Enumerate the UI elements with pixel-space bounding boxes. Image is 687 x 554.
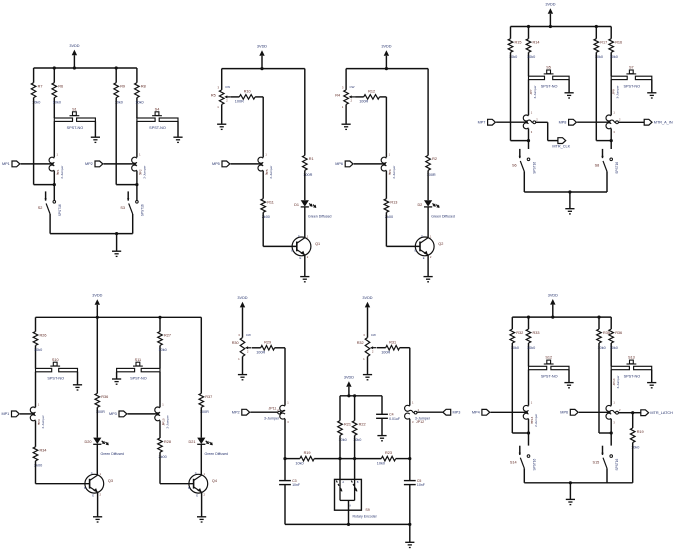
wire <box>528 419 530 446</box>
wire <box>136 121 138 157</box>
wire <box>275 347 285 349</box>
junction <box>115 66 118 69</box>
jumper JP10 <box>155 402 170 428</box>
svg-text:S2: S2 <box>38 206 43 210</box>
svg-text:R13: R13 <box>390 201 397 205</box>
svg-text:B: B <box>357 480 359 484</box>
junction <box>527 139 530 142</box>
junction <box>610 139 613 142</box>
resistor R19 <box>295 451 314 465</box>
wire <box>33 98 35 185</box>
ground <box>112 234 121 257</box>
svg-text:SPST-NO: SPST-NO <box>623 84 640 88</box>
wire <box>262 97 264 157</box>
wire <box>385 171 387 199</box>
svg-text:R27: R27 <box>164 333 171 337</box>
wire <box>409 419 411 481</box>
power 3VDD <box>545 3 555 27</box>
LED D21 <box>189 438 228 456</box>
svg-text:3VDD: 3VDD <box>344 376 354 380</box>
svg-text:E: E <box>92 493 94 497</box>
potentiometer R5 <box>211 85 231 109</box>
svg-text:S10: S10 <box>52 358 59 362</box>
resistor R36 <box>95 393 108 414</box>
node 3VDD rail E <box>36 316 202 318</box>
svg-text:R36: R36 <box>615 331 622 335</box>
svg-text:C4: C4 <box>389 413 394 417</box>
port MP3 <box>443 409 460 415</box>
switch S2 <box>38 191 62 233</box>
svg-text:S15: S15 <box>593 460 600 464</box>
resistor R21 <box>338 421 351 443</box>
wire <box>610 129 612 149</box>
resistor R13 <box>384 199 397 219</box>
resistor R9 <box>114 68 125 104</box>
svg-text:SPST-NO: SPST-NO <box>149 126 166 130</box>
resistor R11 <box>261 199 274 219</box>
junction <box>527 316 530 319</box>
wire <box>314 458 381 460</box>
port MTR_LATCH <box>641 410 673 416</box>
svg-text:10k0: 10k0 <box>527 55 535 59</box>
svg-text:CW: CW <box>225 85 230 89</box>
svg-text:R26: R26 <box>40 333 47 337</box>
svg-text:MTR_CLK: MTR_CLK <box>552 144 570 148</box>
wire <box>252 347 261 349</box>
svg-text:C5: C5 <box>417 479 422 483</box>
wire <box>96 407 98 437</box>
junction <box>53 66 56 69</box>
wire <box>250 411 277 413</box>
LED D1 <box>294 200 331 218</box>
port MP6 <box>560 409 578 415</box>
resistor R37 <box>199 393 212 414</box>
junction <box>595 25 598 28</box>
node mini rail F <box>340 395 382 397</box>
svg-text:Green Diffused: Green Diffused <box>431 214 455 218</box>
wire <box>619 412 633 414</box>
wire <box>577 121 611 123</box>
ground <box>217 124 226 129</box>
junction <box>597 316 600 319</box>
wire <box>377 347 386 349</box>
junction <box>631 411 634 414</box>
wire <box>160 483 194 485</box>
svg-text:Q4: Q4 <box>212 479 217 483</box>
svg-text:B: B <box>415 249 417 253</box>
svg-text:3-Jumper: 3-Jumper <box>616 375 620 388</box>
rotary encoder S9 <box>335 479 378 518</box>
wire <box>427 170 429 200</box>
svg-text:B: B <box>188 486 190 490</box>
node 3VDD rail B <box>222 68 305 70</box>
resistor R14 <box>526 27 539 77</box>
port MP5 <box>212 161 230 167</box>
resistor R27 <box>158 317 171 368</box>
svg-text:R5: R5 <box>211 93 216 97</box>
svg-text:R31: R31 <box>389 340 396 344</box>
wire <box>136 171 138 201</box>
junction <box>96 316 99 319</box>
wire <box>427 255 429 276</box>
port MTR_CLK <box>552 138 570 149</box>
jumper JP2 <box>132 153 147 179</box>
svg-text:R19: R19 <box>304 451 311 455</box>
pushbutton S11 <box>117 358 160 381</box>
svg-text:E: E <box>423 256 425 260</box>
svg-text:R16: R16 <box>615 41 622 45</box>
junction <box>73 66 76 69</box>
potentiometer R32 <box>357 333 377 361</box>
capacitor C4 <box>376 413 400 421</box>
resistor R29 <box>256 340 274 354</box>
svg-text:100R: 100R <box>235 100 244 104</box>
svg-text:R21: R21 <box>344 422 351 426</box>
svg-text:MP2: MP2 <box>232 411 240 415</box>
junction <box>260 67 263 70</box>
svg-text:10nF: 10nF <box>292 483 300 487</box>
junction <box>115 232 118 235</box>
transistor Q4 <box>188 471 217 497</box>
svg-text:3VDD: 3VDD <box>69 44 79 48</box>
svg-text:3VDD: 3VDD <box>237 296 247 300</box>
port MP6 <box>335 161 353 167</box>
svg-text:100R: 100R <box>256 351 265 355</box>
ground <box>173 137 182 142</box>
junction <box>549 25 552 28</box>
node 3VDD rail G <box>512 316 611 318</box>
svg-text:S7: S7 <box>629 66 634 70</box>
svg-text:R37: R37 <box>205 395 212 399</box>
pushbutton S12 <box>529 356 570 383</box>
pushbutton S1 <box>54 107 95 137</box>
resistor R26 <box>33 317 46 368</box>
wire <box>632 443 634 483</box>
svg-text:2-Jumper: 2-Jumper <box>166 415 170 428</box>
svg-text:MP5: MP5 <box>212 162 220 166</box>
port MP4 <box>472 409 490 415</box>
svg-text:3-Jumper: 3-Jumper <box>264 417 280 421</box>
svg-text:100R: 100R <box>381 351 390 355</box>
svg-text:2-Jumper: 2-Jumper <box>41 415 45 428</box>
wire <box>242 357 244 375</box>
svg-text:SPST-NO: SPST-NO <box>541 84 558 88</box>
ground <box>73 385 82 390</box>
wire <box>579 411 611 413</box>
wire <box>200 317 202 393</box>
svg-text:Q1: Q1 <box>315 242 320 246</box>
wire <box>304 69 306 156</box>
wire <box>528 129 530 149</box>
wire <box>512 432 528 434</box>
svg-text:R33: R33 <box>533 331 540 335</box>
jumper JP6 <box>381 153 396 179</box>
svg-text:S5: S5 <box>546 66 551 70</box>
LED D2 <box>417 200 454 218</box>
svg-text:MP3: MP3 <box>109 412 117 416</box>
ground <box>300 277 309 282</box>
svg-text:D1: D1 <box>294 203 299 207</box>
svg-text:R9: R9 <box>120 85 125 89</box>
svg-text:C: C <box>91 471 93 475</box>
svg-text:C: C <box>298 234 300 238</box>
wire <box>96 317 98 393</box>
wire <box>159 372 161 407</box>
wire <box>34 184 55 186</box>
port MP3 <box>109 411 127 417</box>
wire <box>511 140 529 142</box>
svg-text:10nF: 10nF <box>417 483 425 487</box>
svg-text:Rotary Encoder: Rotary Encoder <box>353 515 378 519</box>
svg-text:MP6: MP6 <box>560 411 568 415</box>
junction <box>353 457 356 460</box>
capacitor C5 <box>404 479 425 487</box>
jumper JP7 <box>523 85 538 133</box>
svg-text:SPST-NO: SPST-NO <box>130 377 147 381</box>
switch S14 <box>510 446 536 483</box>
svg-text:D2: D2 <box>417 203 422 207</box>
wire <box>36 483 90 485</box>
wire <box>599 432 611 434</box>
svg-text:10k0: 10k0 <box>159 348 167 352</box>
ground <box>565 93 574 98</box>
jumper JP13 <box>523 401 538 427</box>
junction <box>135 183 138 186</box>
wire <box>115 98 117 185</box>
jumper JP9 <box>30 402 45 428</box>
wire <box>284 348 286 406</box>
svg-text:0.01uF: 0.01uF <box>389 417 400 421</box>
wire <box>20 413 35 415</box>
wire <box>35 461 37 484</box>
ground <box>91 137 100 142</box>
wire <box>339 396 341 421</box>
resistor R36 <box>609 317 622 366</box>
wire <box>632 413 634 428</box>
svg-text:3-Jumper: 3-Jumper <box>616 85 620 98</box>
wire <box>427 69 429 156</box>
wire <box>354 435 356 479</box>
wire <box>231 96 240 98</box>
svg-text:SPST16: SPST16 <box>141 204 145 216</box>
wire <box>511 343 513 433</box>
ground <box>238 375 247 380</box>
svg-text:E: E <box>196 493 198 497</box>
svg-text:MP3: MP3 <box>453 411 461 415</box>
junction <box>53 183 56 186</box>
wire <box>262 212 264 246</box>
svg-text:R22: R22 <box>359 422 366 426</box>
junction <box>527 25 530 28</box>
junction <box>338 457 341 460</box>
wire <box>35 421 37 447</box>
svg-text:Q2: Q2 <box>438 242 443 246</box>
wire bottom rail D <box>524 191 607 193</box>
port MP2 <box>85 161 103 167</box>
wire <box>354 396 356 421</box>
svg-text:MTR_A_IN: MTR_A_IN <box>654 121 673 125</box>
svg-text:R10: R10 <box>244 90 251 94</box>
wire <box>400 347 410 349</box>
resistor R34 <box>33 447 46 468</box>
wire <box>490 411 528 413</box>
wire <box>339 435 341 479</box>
svg-text:R23: R23 <box>385 451 392 455</box>
resistor R35 <box>597 317 610 350</box>
svg-text:R19: R19 <box>637 430 644 434</box>
svg-text:S9: S9 <box>365 508 369 512</box>
pushbutton S13 <box>611 356 652 383</box>
ground <box>112 379 121 384</box>
junction <box>385 67 388 70</box>
svg-text:10k0: 10k0 <box>135 100 143 104</box>
wire <box>528 80 530 116</box>
wire <box>528 370 530 406</box>
wire <box>262 171 264 199</box>
svg-text:S4: S4 <box>155 107 160 111</box>
svg-text:A: A <box>342 480 344 484</box>
wire <box>159 421 161 438</box>
wire <box>547 122 549 140</box>
svg-text:SPST-NO: SPST-NO <box>47 377 64 381</box>
wire <box>53 171 55 201</box>
wire <box>619 121 645 123</box>
wire <box>304 255 306 276</box>
svg-text:3-Jumper: 3-Jumper <box>533 85 537 98</box>
wire <box>610 80 612 116</box>
svg-text:MP6: MP6 <box>335 162 343 166</box>
svg-text:2-Jumper: 2-Jumper <box>534 414 538 427</box>
svg-text:2-Jumper: 2-Jumper <box>60 166 64 179</box>
svg-text:3VDD: 3VDD <box>257 45 267 49</box>
wire <box>255 96 263 98</box>
wire <box>284 419 286 481</box>
svg-text:R12: R12 <box>368 90 375 94</box>
svg-text:R28: R28 <box>164 440 171 444</box>
switch S15 <box>593 446 619 483</box>
potentiometer R30 <box>232 333 252 361</box>
ground <box>342 124 351 129</box>
svg-text:C: C <box>421 234 423 238</box>
svg-text:MP1: MP1 <box>1 412 9 416</box>
resistor R8 <box>135 68 146 118</box>
wire <box>116 184 137 186</box>
svg-text:3VDD: 3VDD <box>545 3 555 7</box>
resistor R28 <box>158 438 171 459</box>
svg-text:C: C <box>195 471 197 475</box>
svg-text:MP1: MP1 <box>2 162 10 166</box>
pushbutton S7 <box>611 66 652 93</box>
svg-text:SPST-NO: SPST-NO <box>541 375 558 379</box>
wire <box>21 163 54 165</box>
port MP1 <box>1 411 19 417</box>
wire <box>104 163 137 165</box>
svg-text:SPST16: SPST16 <box>532 162 536 174</box>
svg-text:MP2: MP2 <box>85 162 93 166</box>
svg-text:Green Diffused: Green Diffused <box>205 452 229 456</box>
svg-text:R2: R2 <box>432 157 437 161</box>
svg-text:Q3: Q3 <box>108 479 113 483</box>
svg-text:2-Jumper: 2-Jumper <box>269 166 273 179</box>
junction <box>353 394 356 397</box>
svg-text:MTR_LATCH: MTR_LATCH <box>650 411 673 415</box>
power 3VDD <box>362 296 372 337</box>
ground <box>377 436 386 441</box>
junction <box>568 190 571 193</box>
ground <box>565 192 574 214</box>
wire <box>409 485 411 525</box>
switch S8 <box>595 149 619 192</box>
svg-text:R8: R8 <box>141 85 146 89</box>
junction <box>408 457 411 460</box>
svg-text:R30: R30 <box>232 341 239 345</box>
jumper JP1 <box>49 153 64 179</box>
svg-text:SPST16: SPST16 <box>615 162 619 174</box>
wire <box>381 418 383 435</box>
LED D20 <box>85 438 124 456</box>
junction <box>283 457 286 460</box>
svg-text:MP8: MP8 <box>559 121 567 125</box>
resistor R17 <box>594 27 607 60</box>
port MP1 <box>2 161 20 167</box>
svg-text:S11: S11 <box>135 358 141 362</box>
resistor R6 <box>52 68 63 118</box>
jumper JP8 <box>606 85 621 133</box>
resistor R22 <box>352 421 365 443</box>
junction <box>551 316 554 319</box>
svg-text:C3: C3 <box>292 479 297 483</box>
svg-text:10k0: 10k0 <box>610 55 618 59</box>
wire <box>200 444 202 474</box>
resistor R31 <box>381 340 399 354</box>
wire <box>53 121 55 157</box>
capacitor C3 <box>279 479 300 487</box>
svg-text:3VDD: 3VDD <box>362 296 372 300</box>
svg-text:10k0: 10k0 <box>610 346 618 350</box>
ground <box>197 517 206 522</box>
power 3VDD <box>69 44 79 68</box>
port MP7 <box>478 119 496 125</box>
svg-text:D21: D21 <box>189 440 196 444</box>
svg-text:R15: R15 <box>515 41 522 45</box>
resistor R2 <box>426 155 437 177</box>
ground <box>647 93 656 98</box>
resistor R1 <box>303 155 314 177</box>
svg-text:2-Jumper: 2-Jumper <box>392 166 396 179</box>
resistor R10 <box>235 90 255 104</box>
svg-text:R11: R11 <box>267 201 274 205</box>
svg-text:S6: S6 <box>512 164 517 168</box>
wire <box>595 52 597 140</box>
wire <box>263 245 296 247</box>
power 3VDD <box>237 296 247 337</box>
svg-text:R32: R32 <box>357 341 364 345</box>
svg-text:10k0: 10k0 <box>377 461 385 465</box>
junction <box>408 523 411 526</box>
ground <box>647 383 656 388</box>
svg-text:D20: D20 <box>85 440 92 444</box>
wire <box>221 104 223 123</box>
wire <box>496 121 528 123</box>
node 3VDD rail D <box>511 26 612 28</box>
resistor R23 <box>377 451 396 465</box>
wire <box>380 96 387 98</box>
ground <box>424 277 433 282</box>
wire <box>417 411 443 413</box>
wire <box>200 407 202 437</box>
node 3VDD rail A <box>34 67 137 69</box>
svg-text:S12: S12 <box>545 356 552 360</box>
